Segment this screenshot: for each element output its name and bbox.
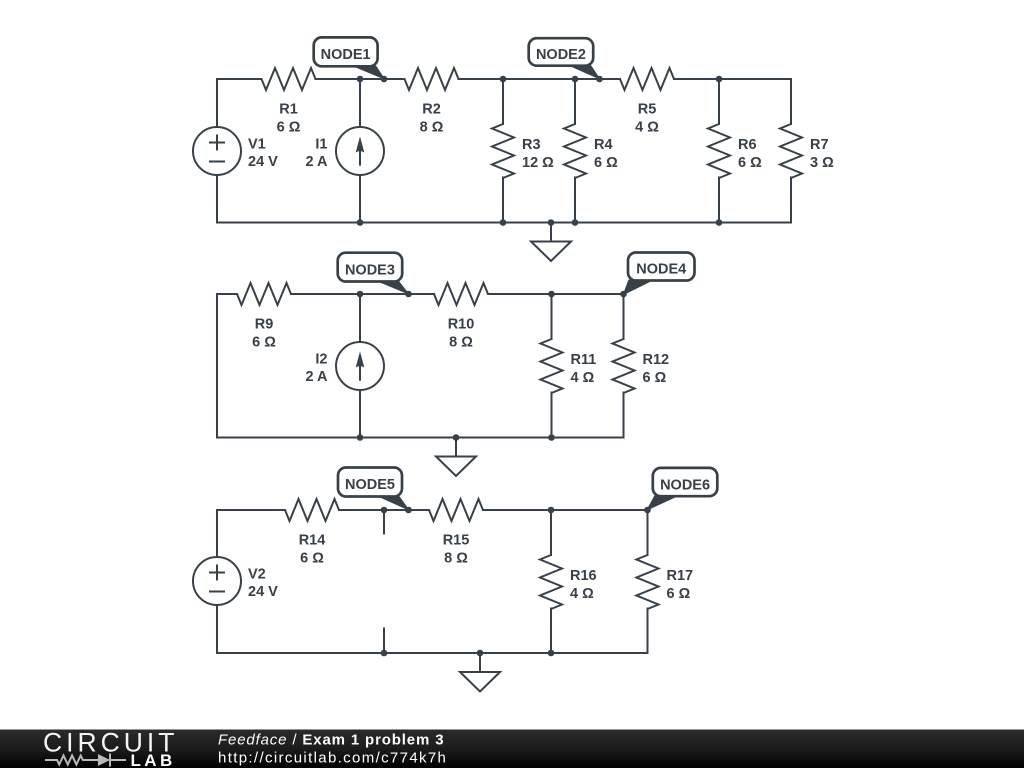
junction I1 bottom xyxy=(357,219,364,226)
wire right edge upper lead of R7 xyxy=(790,79,792,124)
wire lower lead of R16 xyxy=(550,609,552,654)
junction ground middle circuit xyxy=(453,434,460,441)
svg-text:2 A: 2 A xyxy=(305,154,328,170)
resistor R11 xyxy=(541,339,597,393)
svg-text:R12: R12 xyxy=(643,352,670,368)
junction R4 bottom xyxy=(572,219,579,226)
svg-text:http://circuitlab.com/c774k7h: http://circuitlab.com/c774k7h xyxy=(218,750,447,767)
wire lower lead of I2 xyxy=(359,390,361,438)
node NODE1 anchor xyxy=(381,76,388,83)
voltage source V2 24 V xyxy=(193,557,278,605)
resistor R9 xyxy=(237,283,291,351)
wire top-left segment (V1 top to R1) xyxy=(217,78,262,80)
svg-text:4 Ω: 4 Ω xyxy=(570,586,594,602)
wire bottom rail of bottom circuit xyxy=(217,652,648,654)
resistor R7 xyxy=(780,124,834,178)
wire R14 to R15 through node NODE5 xyxy=(339,509,429,511)
wire upper lead of R3 xyxy=(502,79,504,124)
junction R11 top xyxy=(548,291,555,298)
junction I2 bottom xyxy=(357,434,364,441)
junction R6 bottom xyxy=(716,219,723,226)
resistor R2 xyxy=(405,68,459,136)
wire left edge of middle circuit xyxy=(216,294,218,438)
footer bar xyxy=(0,730,1024,768)
svg-text:NODE6: NODE6 xyxy=(660,477,710,493)
wire upper lead of R4 xyxy=(574,79,576,124)
junction I1 top xyxy=(357,76,364,83)
wire lower lead of R4 xyxy=(574,178,576,223)
wire middle top-left segment xyxy=(217,293,237,295)
svg-text:6 Ω: 6 Ω xyxy=(594,155,618,171)
wire bottom rail of top circuit xyxy=(217,222,791,224)
wire stub below node NODE5 xyxy=(383,510,385,534)
svg-text:6 Ω: 6 Ω xyxy=(667,586,691,602)
svg-text:I1: I1 xyxy=(315,137,327,153)
wire upper lead of R17 right edge xyxy=(647,510,649,555)
svg-text:24 V: 24 V xyxy=(248,154,278,170)
wire left edge lower lead of V1 xyxy=(216,175,218,223)
resistor R17 xyxy=(637,555,694,609)
wire upper lead of R6 xyxy=(718,79,720,124)
svg-text:LAB: LAB xyxy=(131,751,176,768)
resistor R14 xyxy=(285,499,339,567)
junction R16 bottom xyxy=(548,650,555,657)
node NODE6 flag xyxy=(646,468,717,511)
current source I1 2 A xyxy=(305,127,384,175)
svg-text:4 Ω: 4 Ω xyxy=(571,370,595,386)
svg-text:8 Ω: 8 Ω xyxy=(444,551,468,567)
junction R6 top xyxy=(716,76,723,83)
svg-text:V1: V1 xyxy=(248,137,266,153)
wire left edge lower lead of V2 xyxy=(216,605,218,653)
wire left edge upper lead of V1 xyxy=(216,79,218,127)
svg-text:4 Ω: 4 Ω xyxy=(635,120,659,136)
wire R9 to R10 through node NODE3 xyxy=(291,293,434,295)
wire upper lead of I1 xyxy=(359,79,361,127)
svg-text:6 Ω: 6 Ω xyxy=(300,551,324,567)
svg-text:R16: R16 xyxy=(570,568,597,584)
node NODE1 flag xyxy=(314,37,386,80)
ground of bottom circuit xyxy=(460,653,500,692)
resistor R12 xyxy=(613,339,670,393)
svg-text:NODE4: NODE4 xyxy=(636,262,686,278)
wire bottom rail of middle circuit xyxy=(217,437,624,439)
resistor R10 xyxy=(434,283,488,351)
svg-text:NODE5: NODE5 xyxy=(345,477,395,493)
junction R3 top xyxy=(500,76,507,83)
junction R16 top xyxy=(548,507,555,514)
wire left edge upper lead of V2 xyxy=(216,510,218,557)
svg-text:R2: R2 xyxy=(422,102,441,118)
junction I2 top xyxy=(357,291,364,298)
node NODE4 flag xyxy=(623,253,695,296)
wire upper lead of R16 xyxy=(550,510,552,555)
CircuitLab logo diode triangle xyxy=(98,754,110,766)
current source I2 2 A xyxy=(305,342,384,390)
wire lower lead of I1 xyxy=(359,175,361,223)
wire bottom-circuit top-left segment xyxy=(217,509,285,511)
svg-text:6 Ω: 6 Ω xyxy=(738,155,762,171)
svg-text:R3: R3 xyxy=(522,137,541,153)
junction stub bottom xyxy=(381,650,388,657)
node NODE4 anchor xyxy=(620,291,627,298)
wire stub above bottom rail xyxy=(383,629,385,654)
resistor R16 xyxy=(540,555,597,609)
node NODE3 flag xyxy=(338,253,410,295)
svg-text:24 V: 24 V xyxy=(248,584,278,600)
svg-text:I2: I2 xyxy=(315,352,327,368)
svg-text:6 Ω: 6 Ω xyxy=(252,335,276,351)
svg-text:R1: R1 xyxy=(279,102,298,118)
wire lower lead of R11 xyxy=(551,393,553,438)
node NODE6 anchor xyxy=(644,507,651,514)
wire R10 to R12 through R11 xyxy=(488,293,624,295)
wire R1 to R2 through node NODE1 xyxy=(316,78,405,80)
resistor R15 xyxy=(429,499,483,567)
svg-text:Feedface / Exam 1 problem 3: Feedface / Exam 1 problem 3 xyxy=(218,732,444,749)
svg-text:NODE2: NODE2 xyxy=(536,47,586,63)
junction ground top circuit xyxy=(548,219,555,226)
svg-text:R5: R5 xyxy=(638,102,657,118)
CircuitLab logo resistor-diode squiggle xyxy=(45,754,126,767)
svg-text:6 Ω: 6 Ω xyxy=(643,370,667,386)
svg-text:NODE3: NODE3 xyxy=(345,262,395,278)
node NODE3 anchor xyxy=(405,291,412,298)
svg-text:NODE1: NODE1 xyxy=(321,47,371,63)
svg-text:R4: R4 xyxy=(594,137,613,153)
junction R3 bottom xyxy=(500,219,507,226)
svg-text:R6: R6 xyxy=(738,137,757,153)
junction ground bottom circuit xyxy=(477,650,484,657)
wire lower lead of R17 right edge xyxy=(647,609,649,654)
svg-text:12 Ω: 12 Ω xyxy=(522,155,554,171)
svg-text:R17: R17 xyxy=(667,568,694,584)
wire upper lead of R11 xyxy=(551,294,553,339)
wire right edge lower lead of R7 xyxy=(790,178,792,223)
wire lower lead of R6 xyxy=(718,178,720,223)
wire R2 to R5 through node NODE2 xyxy=(459,78,621,80)
svg-text:R11: R11 xyxy=(571,352,597,368)
svg-text:6 Ω: 6 Ω xyxy=(277,120,301,136)
resistor R4 xyxy=(564,124,618,178)
svg-text:R14: R14 xyxy=(299,533,326,549)
resistor R3 xyxy=(492,124,554,178)
svg-text:R15: R15 xyxy=(443,533,470,549)
svg-text:3 Ω: 3 Ω xyxy=(810,155,834,171)
wire R5 to top-right corner xyxy=(674,78,791,80)
svg-text:8 Ω: 8 Ω xyxy=(420,120,444,136)
wire upper lead of I2 xyxy=(359,294,361,342)
svg-text:V2: V2 xyxy=(248,567,266,583)
node NODE2 anchor xyxy=(596,76,603,83)
junction R4 top xyxy=(572,76,579,83)
wire upper lead of R12 right edge xyxy=(623,294,625,339)
svg-text:R9: R9 xyxy=(255,317,274,333)
svg-text:R10: R10 xyxy=(448,317,475,333)
svg-text:8 Ω: 8 Ω xyxy=(449,335,473,351)
svg-text:R7: R7 xyxy=(810,137,829,153)
junction stub top xyxy=(381,507,388,514)
wire lower lead of R12 right edge xyxy=(623,393,625,438)
svg-text:2 A: 2 A xyxy=(305,369,328,385)
resistor R6 xyxy=(708,124,762,178)
voltage source V1 24 V xyxy=(193,127,278,175)
wire lower lead of R3 xyxy=(502,178,504,223)
node NODE5 flag xyxy=(338,468,410,512)
resistor R5 xyxy=(620,68,674,136)
ground of top circuit xyxy=(531,223,571,262)
node NODE5 anchor xyxy=(405,507,412,514)
ground of middle circuit xyxy=(436,438,476,477)
node NODE2 flag xyxy=(529,38,601,80)
resistor R1 xyxy=(262,68,316,136)
wire R15 to R17 through R16 xyxy=(483,509,648,511)
junction R11 bottom xyxy=(548,434,555,441)
